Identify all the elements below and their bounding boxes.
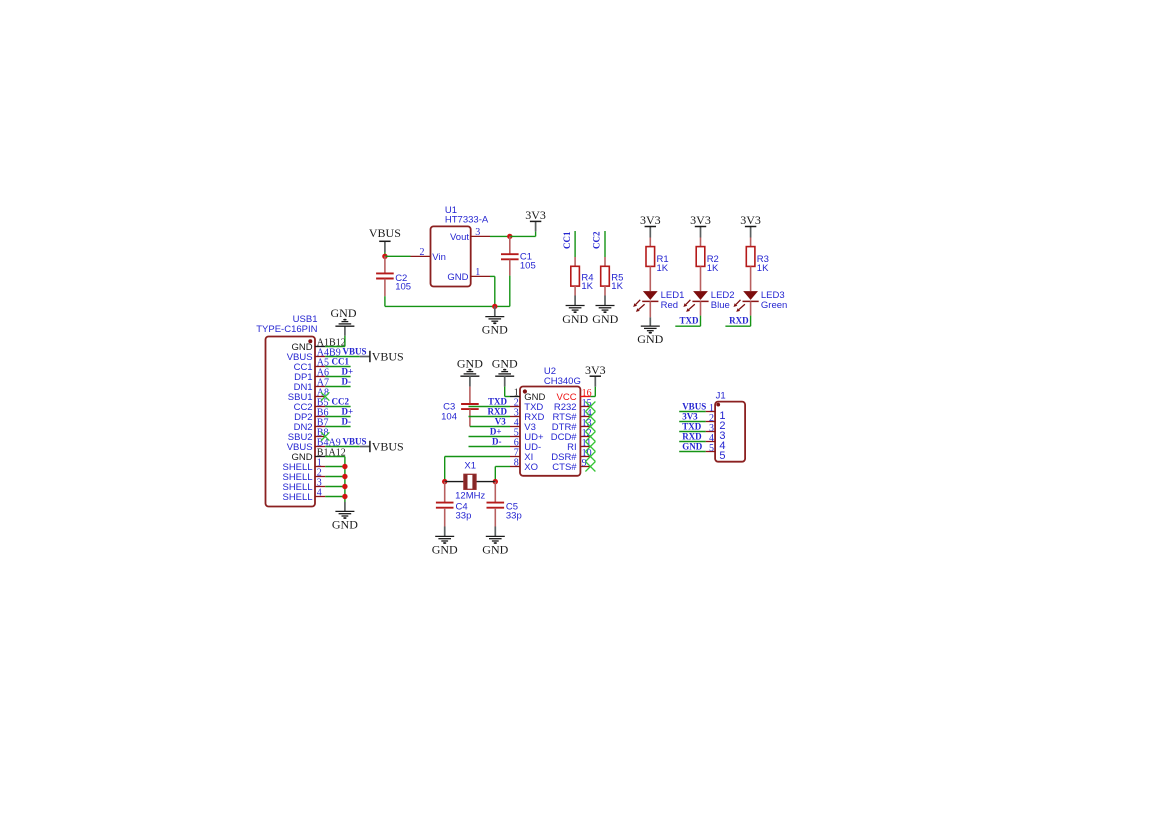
wire net D+ stub to U2 pin 5	[469, 436, 511, 438]
svg-text:1K: 1K	[707, 263, 719, 274]
power flag 3V3 above R1	[640, 213, 661, 237]
USB1 pin B5 (CC2) pin line	[315, 406, 325, 408]
U1 pin 1 GND pin line	[471, 267, 490, 278]
U1 pin name Vin	[432, 252, 446, 263]
net label VBUS	[343, 346, 367, 356]
svg-text:9: 9	[582, 458, 587, 469]
U2 pin number 8	[514, 457, 519, 468]
svg-text:GND: GND	[492, 356, 518, 370]
U2 pin number 12	[582, 428, 592, 439]
wire U1 GND to ground rail	[490, 276, 495, 306]
svg-text:33p: 33p	[506, 510, 522, 521]
wire XO to crystal	[495, 467, 510, 482]
U2 pin name XO	[524, 462, 538, 473]
svg-text:CH340G: CH340G	[544, 376, 581, 387]
LED1 reference designator	[661, 290, 685, 301]
svg-text:3V3: 3V3	[525, 208, 546, 222]
U2 pin number 4	[514, 417, 519, 428]
USB1 pin name CC1	[294, 362, 313, 373]
svg-text:GND: GND	[457, 356, 483, 370]
node XI junction	[442, 479, 447, 484]
svg-text:TYPE-C16PIN: TYPE-C16PIN	[256, 324, 317, 335]
U2 pin number 1	[514, 387, 519, 398]
svg-text:GND: GND	[331, 306, 357, 320]
wire net TXD stub to U2 pin 2	[469, 406, 511, 408]
resistor R3	[746, 238, 755, 292]
USB1 pin A6 (DP1) pin line	[315, 376, 325, 378]
USB1 pin 3 (SHELL) pin line	[315, 486, 325, 488]
U2 pin number 9	[582, 458, 587, 469]
C2 value 105	[395, 282, 411, 293]
U2 pin 4 (V3) pin line	[510, 426, 520, 428]
R3 value 1K	[757, 263, 769, 274]
IC U2 body	[520, 387, 580, 476]
svg-text:D+: D+	[342, 366, 354, 376]
U2 pin name UD+	[524, 432, 544, 443]
svg-text:RXD: RXD	[488, 407, 508, 417]
wire Vout to 3V3	[490, 235, 510, 237]
svg-text:VBUS: VBUS	[343, 346, 367, 356]
net label RXD	[729, 316, 749, 326]
net label VBUS	[343, 436, 367, 446]
C4 value 33p	[456, 510, 472, 521]
USB1 pin number A5	[317, 357, 329, 368]
U2 pin 15 (R232) pin line	[580, 406, 590, 408]
LED3 reference designator	[761, 290, 785, 301]
USB1 pin number A1B12	[317, 337, 346, 348]
U1 reference designator	[445, 205, 457, 216]
svg-text:CC2: CC2	[592, 231, 602, 249]
U2 pin 13 (DTR#) pin line	[580, 426, 590, 428]
svg-text:Green: Green	[761, 300, 787, 311]
net label RXD	[682, 432, 702, 442]
net label RXD	[488, 407, 508, 417]
R2 value 1K	[707, 263, 719, 274]
USB1 pin number 3	[317, 477, 322, 488]
U2 pin 2 (TXD) pin line	[510, 406, 520, 408]
U2 reference designator	[544, 366, 556, 377]
R1 value 1K	[657, 263, 669, 274]
svg-text:CC1: CC1	[562, 231, 572, 249]
svg-text:GND: GND	[447, 272, 468, 283]
U1 value HT7333-A	[445, 214, 489, 225]
U2 pin number 16	[582, 388, 592, 399]
USB1 pin name DP2	[294, 412, 312, 423]
R4 reference designator	[581, 272, 593, 283]
svg-text:V3: V3	[495, 417, 506, 427]
C3 reference designator	[443, 401, 455, 412]
ground GND below U1	[482, 306, 508, 336]
svg-text:3V3: 3V3	[585, 363, 606, 377]
svg-text:TXD: TXD	[679, 316, 699, 326]
USB1 pin name DP1	[294, 372, 312, 383]
no-connect X on USB1 pin A8	[321, 392, 329, 400]
svg-text:VBUS: VBUS	[343, 436, 367, 446]
LED LED2	[683, 291, 708, 312]
USB1 pin name SBU1	[288, 392, 313, 403]
svg-text:4: 4	[317, 487, 322, 498]
resistor R1	[646, 238, 655, 292]
U2 pin 1 (GND) pin line	[510, 396, 520, 398]
USB1 pin name GND	[291, 452, 312, 463]
svg-text:GND: GND	[562, 312, 588, 326]
USB1 pin 2 (SHELL) pin line	[315, 476, 325, 478]
USB1 pin A7 (DN1) pin line	[315, 386, 325, 388]
svg-text:1: 1	[475, 267, 480, 278]
svg-text:D-: D-	[342, 376, 352, 386]
power flag 3V3 (regulator output)	[525, 208, 546, 231]
svg-text:RXD: RXD	[729, 316, 749, 326]
no-connect X on U2 pin 13	[585, 422, 595, 432]
R3 reference designator	[757, 254, 769, 265]
net label D-	[342, 416, 352, 426]
U2 pin number 11	[582, 438, 592, 449]
svg-text:D-: D-	[342, 416, 352, 426]
capacitor C1	[501, 236, 519, 275]
wire net D+ stub from USB1 pin B6	[325, 416, 350, 418]
U2 pin name RI	[567, 442, 577, 453]
connector USB1 body	[266, 337, 316, 507]
svg-text:12MHz: 12MHz	[455, 491, 485, 502]
resistor R2	[696, 238, 705, 292]
wire USB1 SHELL pin 4 to ground bus	[325, 496, 345, 498]
ground GND above C3 (inverted)	[457, 356, 483, 386]
U1 pin 3 Vout pin line	[471, 227, 490, 238]
J1 pin name 4	[719, 440, 725, 452]
R5 reference designator	[611, 272, 623, 283]
svg-text:XO: XO	[524, 462, 538, 473]
USB1 reference designator	[293, 314, 318, 325]
svg-text:Red: Red	[661, 300, 678, 311]
USB1 pin name SHELL	[282, 492, 312, 503]
ground GND below R5	[592, 296, 618, 326]
USB1 pin number B6	[317, 407, 329, 418]
J1 pin 5 pin line	[706, 451, 715, 453]
USB1 pin name VBUS	[287, 442, 313, 453]
svg-text:Blue: Blue	[711, 300, 730, 311]
svg-text:3V3: 3V3	[690, 213, 711, 227]
svg-text:104: 104	[441, 412, 457, 423]
ground GND below R4	[562, 296, 588, 326]
J1 pin name 3	[719, 430, 725, 442]
ground GND above U2 pin1 (inverted)	[492, 356, 518, 386]
net label TXD	[682, 422, 702, 432]
USB1 pin A8 (SBU1) pin line	[315, 396, 325, 398]
node shell junction 2	[342, 474, 347, 479]
USB1 pin number B4A9	[317, 437, 341, 448]
net label D-	[492, 437, 502, 447]
node XO junction	[493, 479, 498, 484]
node VBUS junction	[382, 254, 387, 259]
svg-text:3V3: 3V3	[740, 213, 761, 227]
svg-text:HT7333-A: HT7333-A	[445, 214, 489, 225]
LED LED3	[734, 291, 759, 312]
svg-text:VBUS: VBUS	[372, 440, 404, 454]
svg-text:D+: D+	[342, 406, 354, 416]
USB1 pin B8 (SBU2) pin line	[315, 436, 325, 438]
svg-text:SHELL: SHELL	[282, 492, 312, 503]
R2 reference designator	[707, 254, 719, 265]
U2 pin name DSR#	[551, 452, 577, 463]
svg-text:GND: GND	[482, 323, 508, 337]
power flag VBUS (side)	[360, 440, 404, 454]
wire C1 to ground rail	[509, 276, 511, 307]
LED3 value Green	[761, 300, 787, 311]
USB1 pin name GND	[291, 342, 312, 353]
node shell junction 3	[342, 484, 347, 489]
wire USB1 pin B4A9 to VBUS flag	[325, 446, 360, 448]
svg-text:1K: 1K	[757, 263, 769, 274]
ground GND below C4	[432, 527, 458, 557]
regulator U1 body	[431, 226, 471, 286]
svg-text:105: 105	[520, 261, 536, 272]
USB1 pin B4A9 (VBUS) pin line	[315, 446, 325, 448]
wire junction to 3V3 flag	[510, 231, 536, 236]
U2 pin name CTS#	[552, 462, 577, 473]
U2 pin 9 (CTS#) pin line	[580, 466, 590, 468]
U2 pin number 3	[514, 407, 519, 418]
net label D+	[342, 406, 354, 416]
U2 pin name VCC	[557, 392, 577, 403]
net label CC2	[332, 396, 350, 406]
svg-text:CC2: CC2	[332, 396, 350, 406]
svg-text:D+: D+	[490, 427, 502, 437]
regulator U1 pin 2 Vin pin line	[411, 247, 431, 258]
U2 pin name DTR#	[552, 422, 578, 433]
svg-text:8: 8	[514, 457, 519, 468]
net label V3	[495, 417, 506, 427]
svg-text:TXD: TXD	[488, 397, 508, 407]
svg-text:GND: GND	[682, 442, 703, 452]
USB1 pin A1B12 (GND) pin line	[315, 346, 325, 348]
no-connect X on U2 pin 12	[585, 432, 595, 442]
power flag VBUS (side)	[360, 350, 404, 364]
USB1 pin name CC2	[294, 402, 313, 413]
J1 pin number 3	[709, 423, 714, 434]
C5 value 33p	[506, 510, 522, 521]
J1 pin number 4	[709, 433, 714, 444]
U2 pin 7 (XI) pin line	[510, 456, 520, 458]
X1 reference designator	[464, 460, 476, 471]
U2 pin number 2	[514, 397, 519, 408]
svg-text:GND: GND	[332, 517, 358, 531]
USB1 pin B1A12 (GND) pin line	[315, 456, 325, 458]
svg-text:TXD: TXD	[682, 422, 702, 432]
net label 3V3	[682, 412, 698, 422]
wire net CC1 stub from USB1 pin A5	[325, 366, 350, 368]
wire GND to U2 pin 1	[505, 387, 510, 397]
U2 pin name RXD	[524, 412, 544, 423]
node ground rail junction	[492, 304, 497, 309]
C5 reference designator	[506, 502, 518, 513]
capacitor C3	[461, 387, 479, 427]
wire U2 VCC to 3V3	[590, 387, 595, 397]
USB1 pin number B7	[317, 417, 329, 428]
U2 pin 16 (VCC) pin line	[580, 396, 590, 398]
U2 pin name TXD	[524, 402, 543, 413]
node shell junction 4	[342, 494, 347, 499]
wire net RXD stub to U2 pin 3	[469, 416, 511, 418]
wire net CC2 stub from USB1 pin B5	[325, 406, 350, 408]
C2 reference designator	[395, 273, 407, 284]
capacitor C4	[436, 482, 454, 527]
wire USB1 pin B1A12 to shell ground	[325, 457, 345, 503]
wire net D+ stub from USB1 pin A6	[325, 376, 350, 378]
svg-text:1K: 1K	[581, 281, 593, 292]
U2 pin 12 (DCD#) pin line	[580, 436, 590, 438]
wire C3 to U2 V3 pin	[470, 426, 510, 428]
C3 value 104	[441, 412, 457, 423]
USB1 first-pin dot	[308, 339, 312, 343]
svg-text:3: 3	[475, 227, 480, 238]
J1 pin name 1	[719, 410, 725, 422]
USB1 pin number B1A12	[317, 447, 346, 458]
U2 pin name XI	[524, 452, 533, 463]
U2 pin 10 (DSR#) pin line	[580, 456, 590, 458]
net label D+	[490, 427, 502, 437]
svg-text:1K: 1K	[611, 281, 623, 292]
svg-text:1K: 1K	[657, 263, 669, 274]
wire VBUS to U1 Vin	[385, 255, 411, 257]
power flag 3V3 above U2	[585, 363, 606, 387]
USB1 pin name SHELL	[282, 482, 312, 493]
capacitor C2	[376, 256, 394, 296]
U1 pin name Vout	[450, 232, 469, 243]
resistor R4	[571, 257, 580, 296]
U2 pin 5 (UD+) pin line	[510, 436, 520, 438]
svg-text:Vin: Vin	[432, 252, 446, 263]
USB1 value TYPE-C16PIN	[256, 324, 317, 335]
svg-text:3V3: 3V3	[682, 412, 698, 422]
svg-text:VBUS: VBUS	[372, 350, 404, 364]
net label D+	[342, 366, 354, 376]
USB1 pin name DN1	[294, 382, 313, 393]
USB1 pin number 1	[317, 457, 322, 468]
wire net 3V3 stub to J1 pin 2	[679, 421, 706, 423]
svg-text:X1: X1	[464, 460, 476, 471]
ground GND below LED1	[637, 301, 663, 346]
wire USB1 pin A1B12 to GND	[325, 336, 345, 347]
USB1 pin 1 (SHELL) pin line	[315, 466, 325, 468]
power flag 3V3 above R2	[690, 213, 711, 237]
USB1 pin A4B9 (VBUS) pin line	[315, 356, 325, 358]
svg-text:2: 2	[420, 247, 425, 258]
C4 reference designator	[456, 502, 468, 513]
wire net D- stub from USB1 pin B7	[325, 426, 350, 428]
USB1 pin B7 (DN2) pin line	[315, 426, 325, 428]
U2 pin 8 (XO) pin line	[510, 466, 520, 468]
USB1 pin B6 (DP2) pin line	[315, 416, 325, 418]
net label CC1 (vertical)	[562, 231, 572, 249]
net label GND	[682, 442, 703, 452]
USB1 pin name SHELL	[282, 472, 312, 483]
LED2 reference designator	[711, 290, 735, 301]
svg-text:3V3: 3V3	[640, 213, 661, 227]
wire net RXD stub to J1 pin 4	[679, 441, 706, 443]
ground GND below USB1 shell	[332, 502, 358, 531]
U2 pin number 7	[514, 447, 519, 458]
no-connect X on U2 pin 9	[585, 462, 595, 472]
svg-text:105: 105	[395, 282, 411, 293]
U2 pin name DCD#	[551, 432, 578, 443]
USB1 pin name VBUS	[287, 352, 313, 363]
J1 pin 3 pin line	[706, 431, 715, 433]
svg-text:5: 5	[719, 450, 725, 462]
wire net VBUS stub to J1 pin 1	[679, 411, 706, 413]
connector J1 body	[715, 402, 745, 462]
wire XI to crystal	[445, 457, 510, 482]
J1 first-pin dot	[716, 403, 720, 407]
USB1 pin A5 (CC1) pin line	[315, 366, 325, 368]
USB1 pin number 4	[317, 487, 322, 498]
USB1 pin number B8	[317, 427, 329, 438]
svg-text:GND: GND	[482, 542, 508, 556]
USB1 pin 4 (SHELL) pin line	[315, 496, 325, 498]
R4 value 1K	[581, 281, 593, 292]
R5 value 1K	[611, 281, 623, 292]
net label TXD	[679, 316, 699, 326]
LED2 value Blue	[711, 300, 730, 311]
USB1 pin name SBU2	[288, 432, 313, 443]
wire net GND stub to J1 pin 5	[679, 451, 706, 453]
net label TXD	[488, 397, 508, 407]
U2 pin name R232	[554, 402, 577, 413]
USB1 pin number B5	[317, 397, 329, 408]
capacitor C5	[487, 482, 505, 527]
R1 reference designator	[657, 254, 669, 265]
LED LED1	[633, 291, 658, 312]
svg-text:D-: D-	[492, 437, 502, 447]
svg-text:Vout: Vout	[450, 232, 469, 243]
node shell junction 1	[342, 464, 347, 469]
U2 pin number 6	[514, 437, 519, 448]
svg-text:5: 5	[709, 443, 714, 454]
wire USB1 SHELL pin 1 to ground bus	[325, 466, 345, 468]
wire net CC1 stub	[574, 231, 576, 257]
no-connect X on USB1 pin B8	[321, 432, 329, 440]
U2 pin 6 (UD-) pin line	[510, 446, 520, 448]
U2 pin number 15	[582, 398, 592, 409]
svg-text:VBUS: VBUS	[369, 226, 401, 240]
C1 reference designator	[520, 252, 532, 263]
X1 value 12MHz	[455, 491, 485, 502]
wire C2 to ground rail	[384, 296, 386, 306]
J1 pin number 1	[709, 403, 714, 414]
USB1 pin number A8	[317, 387, 329, 398]
svg-text:CTS#: CTS#	[552, 462, 577, 473]
J1 pin 4 pin line	[706, 441, 715, 443]
U2 pin name UD-	[524, 442, 541, 453]
U2 pin number 10	[582, 448, 592, 459]
svg-text:GND: GND	[432, 542, 458, 556]
U2 pin 3 (RXD) pin line	[510, 416, 520, 418]
wire net D- stub to U2 pin 6	[469, 446, 511, 448]
wire net D- stub from USB1 pin A7	[325, 386, 350, 388]
U1 pin name GND	[447, 272, 468, 283]
USB1 pin number A4B9	[317, 347, 341, 358]
no-connect X on U2 pin 10	[585, 452, 595, 462]
crystal X1	[445, 474, 496, 489]
wire USB1 SHELL pin 2 to ground bus	[325, 476, 345, 478]
net label CC2 (vertical)	[592, 231, 602, 249]
svg-text:VBUS: VBUS	[682, 402, 706, 412]
ground GND above USB1 (inverted)	[331, 306, 357, 336]
U2 pin 14 (RTS#) pin line	[580, 416, 590, 418]
ground GND below C5	[482, 527, 508, 557]
no-connect X on U2 pin 11	[585, 442, 595, 452]
svg-text:J1: J1	[716, 390, 726, 401]
USB1 pin name DN2	[294, 422, 313, 433]
